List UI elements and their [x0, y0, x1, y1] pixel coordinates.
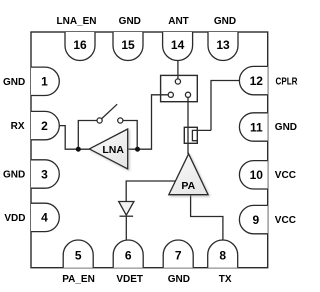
diode (VDET detector) [119, 202, 134, 216]
switch S2 common contact [175, 79, 180, 84]
svg-text:11: 11 [250, 120, 263, 134]
svg-text:LNA_EN: LNA_EN [56, 16, 96, 27]
svg-text:13: 13 [216, 38, 230, 52]
svg-text:GND: GND [119, 16, 141, 27]
svg-text:GND: GND [3, 170, 25, 181]
wire: switch TX contact through coupler to PA output [187, 97, 189, 154]
switch S1 left contact [97, 118, 102, 123]
wire: bypass switch left leg [78, 121, 97, 150]
svg-text:VDET: VDET [116, 274, 143, 285]
svg-text:VCC: VCC [275, 215, 296, 226]
node: LNA output junction [135, 147, 140, 152]
svg-text:3: 3 [41, 167, 48, 181]
svg-text:PA_EN: PA_EN [62, 274, 95, 285]
svg-text:VDD: VDD [4, 213, 25, 224]
pin 10 [239, 161, 267, 189]
pin 11 [239, 113, 267, 141]
pin 3 [31, 160, 59, 188]
svg-text:2: 2 [41, 119, 48, 133]
svg-text:16: 16 [73, 38, 87, 52]
pin 5 [63, 240, 93, 268]
switch S2 RX contact [168, 92, 173, 97]
amplifier PA [169, 154, 208, 195]
switch S1 (LNA bypass) arm [102, 104, 118, 118]
wire: PA tap to detector diode [126, 181, 178, 201]
svg-text:8: 8 [219, 248, 226, 262]
pin 16 [65, 32, 95, 61]
svg-text:ANT: ANT [168, 16, 189, 27]
svg-text:15: 15 [121, 38, 135, 52]
svg-text:RX: RX [11, 121, 25, 132]
svg-text:TX: TX [219, 274, 232, 285]
pin 13 [208, 32, 238, 61]
svg-text:7: 7 [175, 248, 182, 262]
wire: bypass switch right leg [123, 121, 137, 150]
pin 2 [31, 111, 59, 139]
wire: ANT pin 14 to switch common [177, 60, 179, 79]
pin 1 [31, 67, 59, 95]
svg-text:12: 12 [250, 74, 264, 88]
pin 7 [163, 240, 193, 268]
svg-text:6: 6 [125, 248, 132, 262]
diode cathode bar [120, 215, 134, 217]
pin 4 [31, 203, 59, 231]
switch S2 TX contact [185, 92, 190, 97]
svg-text:4: 4 [41, 211, 48, 225]
wire: diode to VDET pin 6 [125, 216, 127, 240]
svg-text:GND: GND [168, 274, 190, 285]
svg-text:GND: GND [3, 77, 25, 88]
pin 8 [208, 240, 238, 268]
directional coupler [184, 127, 197, 143]
switch S1 right contact [118, 118, 123, 123]
wire: LNA output to antenna switch [128, 95, 169, 149]
package outline [31, 32, 268, 268]
node: LNA input junction [76, 147, 81, 152]
wire: RX pin 2 to LNA input node [59, 126, 89, 150]
pin 12 [239, 66, 267, 94]
svg-text:1: 1 [41, 75, 48, 89]
svg-text:10: 10 [250, 168, 264, 182]
amplifier LNA [89, 129, 127, 169]
wire: PA input to TX pin 8 [191, 194, 223, 240]
svg-text:VCC: VCC [275, 170, 296, 181]
svg-text:9: 9 [252, 213, 259, 227]
coupler coupled line [192, 130, 211, 140]
pin 6 [113, 240, 143, 268]
svg-text:PA: PA [181, 180, 195, 192]
svg-text:GND: GND [214, 16, 236, 27]
pin 9 [239, 205, 267, 233]
wire: coupled port to CPLR pin 12 [211, 81, 240, 131]
svg-text:14: 14 [171, 38, 185, 52]
switch S2 (TX/RX antenna switch) box [161, 75, 198, 101]
pin 15 [113, 32, 143, 61]
svg-text:LNA: LNA [102, 144, 124, 156]
svg-text:5: 5 [75, 248, 82, 262]
pin 14 [163, 32, 193, 61]
svg-text:GND: GND [275, 122, 297, 133]
svg-text:CPLR: CPLR [276, 76, 299, 87]
